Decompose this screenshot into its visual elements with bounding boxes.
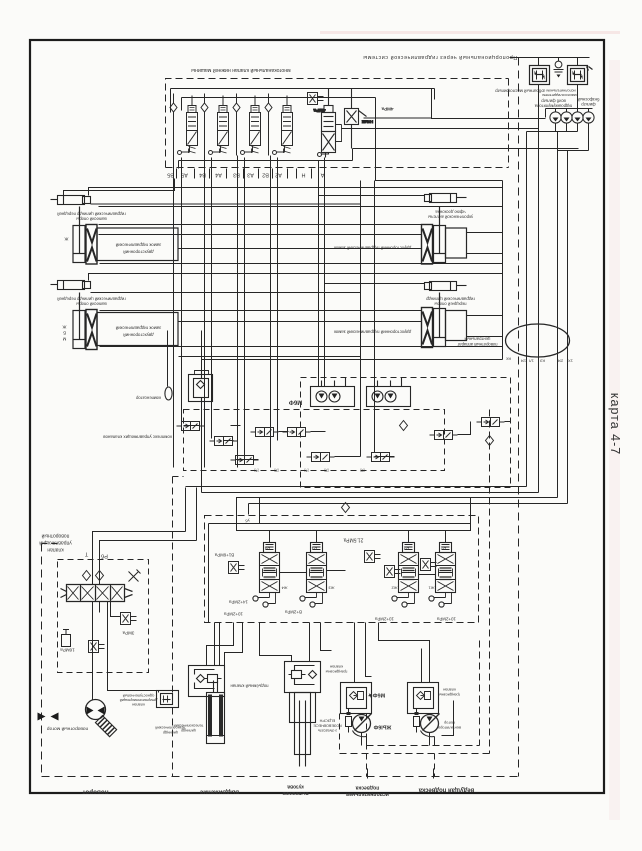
adjust verticals to turns: [237, 498, 260, 524]
svg-text:16МРа: 16МРа: [60, 648, 75, 653]
svg-text:обратный маслофильтр: обратный маслофильтр: [495, 89, 544, 94]
relief valve near V1 top: [308, 93, 324, 105]
vertical drop x184: [181, 158, 183, 423]
top-right: supply header line: [510, 58, 590, 66]
wires below lower block: [215, 623, 220, 666]
pump group G2: [367, 378, 411, 407]
filter PF2: [408, 683, 439, 714]
dashed enclosure CM1 (valve complex): [184, 410, 445, 471]
right column wire x540: [558, 150, 589, 152]
svg-text:Ж3: Ж3: [328, 586, 335, 591]
svg-text:[2]: [2]: [325, 469, 329, 473]
svg-text:Р1: Р1: [440, 546, 446, 551]
svg-text:В2: В2: [262, 172, 269, 178]
wire H y273: [89, 274, 503, 281]
relief near W2: [385, 566, 401, 578]
svg-text:гидравлический цилиндр передне: гидравлический цилиндр передней: [57, 297, 126, 302]
pump PP2 wires: [421, 731, 435, 746]
breather (strainer) between filters: [554, 61, 564, 77]
wire H y224: [99, 224, 422, 226]
svg-text:2Я: 2Я: [558, 359, 563, 364]
check diamond lower: [342, 503, 350, 513]
lower block solid frame2: [209, 524, 471, 623]
cooler header line: [546, 109, 593, 118]
wire L4 to column: [467, 316, 503, 337]
svg-text:гидравлический цилиндр передне: гидравлический цилиндр передней: [57, 212, 126, 217]
relief near W1 small: [421, 559, 437, 571]
lower block solid frame: [237, 498, 471, 531]
vertical drop x178: [173, 156, 175, 468]
wire H y321: [179, 321, 422, 323]
dashed bottom y753: [340, 753, 490, 755]
tilt arrow right of assembly: [129, 570, 141, 582]
vertical drop x374: [374, 181, 376, 453]
svg-text:одноступенчатый: одноступенчатый: [123, 694, 155, 699]
wire: left drop from bank: [64, 179, 175, 196]
svg-text:Р2: Р2: [403, 546, 409, 551]
relief 16MPa: [89, 641, 105, 653]
right column feed wires stepping left: [186, 487, 568, 504]
small valve K5: [231, 456, 259, 465]
small valve K3: [251, 428, 279, 437]
CM bottom tick labels: [255, 469, 365, 473]
svg-text:М: М: [62, 337, 66, 342]
svg-text:клапан: клапан: [443, 688, 456, 693]
vertical drop x241: [237, 156, 239, 468]
dashed enclosure bottom y776: [42, 776, 519, 778]
svg-text:Ж2: Ж2: [391, 586, 398, 591]
svg-text:цилиндр: цилиндр: [163, 731, 178, 736]
svg-text:уб: уб: [245, 519, 250, 524]
svg-text:безфосный: безфосный: [577, 97, 600, 102]
svg-text:з divazсать: з divazсать: [318, 729, 337, 733]
svg-text:кузова: кузова: [287, 784, 304, 790]
cooler drop wires: [556, 123, 589, 504]
vertical drop x277: [277, 158, 279, 441]
valve section V2: [265, 94, 293, 156]
svg-text:исполнительная: исполнительная: [346, 791, 389, 797]
wire H y248: [179, 248, 422, 250]
valve bank manifold top line: [171, 89, 435, 113]
svg-text:поворотный мотор: поворотный мотор: [47, 726, 89, 733]
svg-text:комплекс управляющих клапанов: комплекс управляющих клапанов: [103, 435, 172, 440]
wire from bank top to coolers: [432, 89, 546, 119]
svg-text:двухсторонний: двухсторонний: [123, 250, 154, 255]
relief small left: [229, 562, 245, 574]
dashed drop x434: [434, 754, 436, 777]
svg-text:управляющий: управляющий: [39, 540, 72, 547]
scan pink streak top: [320, 31, 620, 34]
svg-text:НЗМЕ: НЗМЕ: [362, 120, 374, 125]
wire H y292: [91, 292, 361, 294]
svg-text:валюсий опоры: валюсий опоры: [76, 217, 106, 222]
svg-text:В5: В5: [167, 172, 174, 178]
svg-text:4МРа: 4МРа: [381, 107, 393, 112]
svg-text:центральный: центральный: [464, 337, 491, 342]
dashed big enclosure right edge x518: [518, 58, 520, 777]
pump PP1: [353, 714, 372, 733]
demultiplier box: [157, 691, 179, 708]
filter PF1: [341, 683, 372, 714]
svg-text:маслоохладителем: маслоохладителем: [542, 93, 577, 97]
dashed enclosure CM2 (pump complex): [301, 378, 511, 488]
svg-text:цилиндр: цилиндр: [181, 729, 196, 733]
svg-text:ЕЦЗСРН: ЕЦЗСРН: [319, 719, 335, 723]
lower valve section W3: [300, 543, 327, 608]
return filter box 1: [530, 66, 550, 85]
svg-text:компенсатор: компенсатор: [135, 396, 161, 401]
svg-text:Ж1: Ж1: [428, 586, 435, 591]
svg-text:укрогиченской англсчы: укрогиченской англсчы: [428, 215, 473, 220]
flow arrows left: [38, 713, 46, 721]
wire to PG1: [355, 623, 372, 683]
dashed enclosure left edge x41: [41, 544, 43, 777]
wire H y187: [89, 188, 503, 196]
svg-text:вывешние: вывешние: [282, 790, 308, 796]
cooler circle 3: [572, 112, 583, 123]
svg-text:двухсторонний: двухсторонний: [123, 333, 154, 338]
wire H y195 to C3: [319, 195, 425, 197]
pressure valve right of bank: [345, 89, 367, 149]
cylinder C2 (left lower): [51, 281, 91, 290]
wire y180 stepping to right column: [376, 98, 503, 360]
svg-text:А2: А2: [275, 172, 282, 178]
svg-text:грандиозны: грандиозны: [439, 693, 460, 698]
svg-text:Б: Б: [63, 331, 66, 336]
lock L3 (right): [422, 207, 467, 265]
svg-text:клапан: клапан: [132, 703, 145, 708]
check diamonds above rotary assembly: [83, 571, 91, 581]
valve section V1 (main, wider): [318, 89, 342, 158]
dashed enclosure rotary: [58, 560, 149, 673]
wires inside CM: [184, 422, 511, 460]
svg-text:гидравлический цилиндр: гидравлический цилиндр: [425, 297, 474, 302]
pump PP2: [421, 714, 440, 733]
svg-text:10+2МРа: 10+2МРа: [375, 617, 394, 622]
small valve K2: [210, 437, 238, 446]
oil filter F3: [189, 371, 213, 402]
dashed enclosure left top notch: [42, 543, 58, 545]
lock L4 (right): [422, 293, 467, 348]
dashed drop x339: [339, 714, 341, 754]
wire rotary inner: [100, 602, 121, 617]
svg-text:3МРа: 3МРа: [122, 631, 134, 636]
brake (hatched, rotated): [95, 716, 116, 737]
svg-text:мотор: мотор: [444, 721, 455, 726]
svg-text:всиб фильтр: всиб фильтр: [541, 99, 566, 104]
vertical drop x215: [211, 158, 213, 439]
vertical drop x324: [324, 158, 326, 387]
wire to compensator: [167, 331, 169, 387]
svg-text:М6Ф: М6Ф: [289, 399, 302, 405]
small valve K7: [367, 453, 395, 462]
svg-text:М6Ф★: М6Ф★: [367, 692, 386, 699]
dashed bottom y745: [367, 745, 480, 747]
svg-text:Пропорциональный через гидравл: Пропорциональный через гидравлической си…: [363, 54, 517, 61]
svg-text:гидроаккумулятора: гидроаккумулятора: [534, 104, 572, 109]
svg-text:клапан: клапан: [330, 665, 343, 670]
svg-text:ведущая подвеска: ведущая подвеска: [418, 787, 474, 793]
small check left: [62, 630, 71, 647]
vertical drop x360: [360, 181, 362, 457]
wire PG2 feed from cooler line: [379, 623, 430, 683]
svg-text:грандиозны: грандиозны: [325, 670, 347, 675]
svg-text:21.5МРа: 21.5МРа: [343, 537, 363, 543]
small valve K6: [307, 453, 335, 462]
svg-text:10+2МРа: 10+2МРа: [437, 617, 456, 622]
wire W4 drops: [207, 623, 243, 666]
svg-text:Рб: Рб: [101, 553, 108, 559]
svg-text:Ж4: Ж4: [281, 586, 288, 591]
return filter box 2: [568, 66, 593, 85]
vertical drop x209: [204, 156, 206, 468]
svg-text:фильтр: фильтр: [581, 102, 596, 107]
svg-text:РОЗЕВОВЧЕСЕ: РОЗЕВОВЧЕСЕ: [313, 724, 342, 728]
pump PP1 wires: [353, 731, 367, 746]
telescopic cylinder TC: [207, 681, 225, 744]
wire H y310: [100, 310, 422, 312]
svg-text:1Х: 1Х: [568, 359, 573, 364]
pump PP1 brake: [346, 709, 352, 733]
wire filter drop: [201, 402, 203, 493]
svg-text:двухсторонний гидравлический з: двухсторонний гидравлический замок: [334, 330, 411, 335]
svg-text:КК: КК: [506, 357, 511, 362]
wire H y281 to C4: [325, 283, 425, 285]
21.5MPa relief: [365, 551, 381, 563]
check diamond in CM: [400, 421, 408, 431]
lift cylinder LC: [290, 693, 316, 767]
wire x558 from coolers joins: [558, 58, 560, 62]
solid tick x433 below: [433, 769, 435, 779]
svg-text:подъёмный клапан: подъёмный клапан: [230, 684, 269, 689]
wire H y359 right link: [202, 360, 503, 375]
cooler circle 1: [550, 112, 561, 123]
valve bank manifold second line: [182, 98, 376, 111]
svg-text:Н: Н: [301, 172, 305, 178]
svg-text:демультипликующий: демультипликующий: [120, 698, 158, 703]
wire filter top: [201, 331, 203, 375]
svg-text:Ж: Ж: [62, 325, 66, 330]
border frame: [30, 40, 604, 793]
wire to LC: [260, 623, 332, 662]
pump PP2 brake: [414, 709, 420, 733]
svg-text:поворотный: поворотный: [41, 533, 69, 540]
svg-text:В1+6МРа: В1+6МРа: [214, 553, 234, 558]
svg-text:замок гидравлический: замок гидравлический: [115, 326, 161, 331]
svg-text:[2]: [2]: [275, 469, 279, 473]
cylinder C4 (right lower): [425, 282, 467, 291]
lock L2 (left): [73, 293, 178, 350]
valve section V4: [201, 94, 229, 156]
svg-text:10+2МРа: 10+2МРа: [224, 612, 243, 617]
vertical drop x273: [270, 156, 272, 468]
svg-text:1Я: 1Я: [521, 359, 526, 364]
dashed top y476: [173, 476, 184, 478]
svg-text:В+2МРа: В+2МРа: [285, 610, 302, 615]
svg-text:14+2МРа: 14+2МРа: [229, 600, 248, 605]
svg-text:многоканальный клапан нижней м: многоканальный клапан нижней машины: [191, 67, 291, 74]
valve section V3: [233, 94, 261, 156]
small valve K4: [283, 428, 311, 437]
dashed right x479: [479, 641, 481, 746]
wire H y356: [179, 356, 361, 358]
check diamond in CM b: [486, 436, 494, 446]
lower valve section W2: [392, 543, 419, 608]
solid tick x367 below: [367, 769, 369, 779]
wire PG2 feed2: [421, 649, 423, 683]
dashed drop x366: [366, 714, 368, 777]
svg-text:валюсий опоры: валюсий опоры: [76, 302, 106, 307]
wire H y263: [100, 263, 503, 265]
valve section V5: [170, 94, 198, 156]
balance valve BV2: [285, 662, 321, 693]
svg-text:выдвижение: выдвижение: [199, 789, 239, 796]
filter 2 drop wire: [577, 85, 579, 109]
wire stems lower valves to frame: [270, 531, 446, 543]
svg-text:карта 4-7: карта 4-7: [608, 393, 622, 455]
svg-text:поворотный аппарат: поворотный аппарат: [457, 342, 497, 347]
long wire y148: [353, 149, 579, 161]
dashed enclosure big left x172: [172, 477, 174, 777]
port labels B5 A5 B4 A4 B3 A3 B2 A2 B A: [167, 172, 324, 178]
vertical drop x246: [244, 158, 246, 456]
svg-text:Р3: Р3: [311, 546, 317, 551]
pump group G1: [311, 378, 355, 407]
cylinder C1 (front outrigger, left): [51, 196, 91, 205]
valve bank bottom manifold line: [179, 161, 353, 169]
svg-text:телескопический: телескопический: [174, 724, 204, 728]
cooler circle 4: [583, 112, 594, 123]
svg-text:Р4: Р4: [264, 546, 270, 551]
dashed enclosure lower valve block: [205, 516, 479, 623]
lower valve section W1: [429, 543, 456, 608]
swivel port ticks: [506, 357, 573, 364]
label separators under bank: [177, 169, 312, 179]
dashed right x489: [489, 410, 491, 754]
svg-text:Ж: Ж: [64, 237, 68, 242]
svg-text:вентилятора: вентилятора: [437, 726, 461, 731]
svg-text:[4]: [4]: [305, 469, 309, 473]
small valve K9: [477, 418, 505, 427]
compensator ellipse: [165, 387, 172, 400]
wire right corner to PG2: [442, 701, 454, 736]
small valve K1: [177, 422, 205, 431]
dashed enclosure A (proportional valve bank): [166, 79, 509, 168]
wire T up: [93, 488, 186, 585]
svg-text:ЖЫ6Ф: ЖЫ6Ф: [373, 724, 392, 730]
svg-text:А3: А3: [247, 172, 254, 178]
svg-text:поворот: поворот: [82, 789, 108, 796]
svg-text:В3: В3: [233, 172, 240, 178]
right column wire x526: [527, 132, 578, 487]
svg-text:КЗ: КЗ: [540, 359, 545, 364]
svg-text:1Л: 1Л: [529, 359, 534, 364]
svg-text:А: А: [320, 172, 324, 178]
cylinder C3 (right): [425, 194, 467, 203]
svg-text:[4]: [4]: [255, 469, 259, 473]
wire L3 to column: [467, 233, 503, 254]
lock L1 (left): [73, 207, 178, 265]
svg-text:А5: А5: [181, 172, 188, 178]
wire H y346: [100, 346, 503, 348]
svg-text:клапан: клапан: [47, 547, 63, 553]
wire between lower valves: [280, 571, 436, 575]
svg-text:замок гидравлический: замок гидравлический: [115, 243, 161, 248]
wire y128: [342, 128, 539, 130]
lower valve section W4: [253, 543, 280, 608]
filter 1 drop wire: [538, 85, 540, 493]
rotary motor PM: [86, 700, 106, 720]
wire H y234: [99, 234, 422, 236]
vertical drop x318: [318, 161, 320, 387]
svg-text:4МРа: 4МРа: [313, 108, 325, 113]
svg-text:[3]: [3]: [361, 469, 365, 473]
balance valve BV1: [189, 666, 225, 697]
scan pink band right: [609, 60, 620, 820]
wire H y206: [99, 206, 503, 208]
rotary valve assembly: [61, 585, 133, 602]
wire H y201: [91, 203, 361, 205]
wire y117 left ext: [364, 117, 432, 119]
small valve K8: [430, 431, 458, 440]
wire rotary down pair: [93, 602, 159, 700]
swivel joint ellipse (центральный поворотный аппарат): [506, 324, 570, 357]
svg-text:исполнительном с: исполнительном с: [543, 89, 575, 93]
wire P up: [100, 488, 197, 585]
svg-text:А4: А4: [215, 172, 222, 178]
relief 3MPa: [121, 613, 137, 625]
cooler circle 2: [561, 112, 572, 123]
svg-text:подвеска: подвеска: [355, 785, 379, 791]
